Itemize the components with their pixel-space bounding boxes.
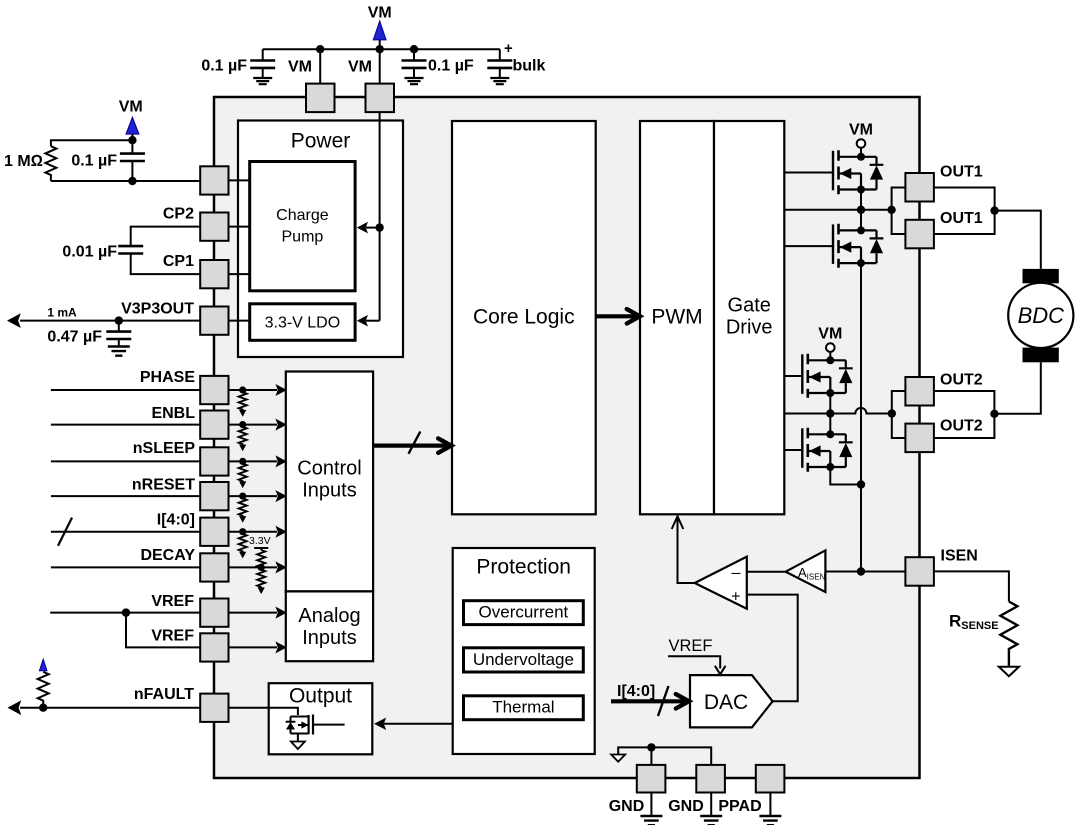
svg-text:OUT1: OUT1	[940, 210, 983, 227]
node VM-RC top	[128, 136, 136, 144]
capacitor C3 bulk	[487, 40, 545, 78]
node V3P3OUT cap	[115, 316, 123, 324]
wire VCP pin to Charge Pump	[229, 179, 250, 181]
pin VCP	[200, 166, 228, 194]
wire ENBL external	[51, 424, 200, 426]
wire nRESET internal with arrow	[229, 490, 287, 502]
node OUT2-pins	[888, 409, 896, 417]
VM terminal OUT1	[857, 139, 866, 148]
pin OUT1a	[905, 173, 934, 202]
node RC bottom	[128, 177, 136, 185]
svg-text:VREF: VREF	[669, 637, 713, 655]
svg-text:V3P3OUT: V3P3OUT	[121, 301, 194, 318]
node rail-VM2	[376, 45, 384, 53]
Undervoltage box	[464, 648, 584, 672]
svg-text:I[4:0]: I[4:0]	[617, 683, 655, 700]
pin OUT2a	[905, 377, 934, 406]
DAC block	[690, 675, 773, 727]
wire ISEN pin to RSENSE	[934, 571, 1009, 601]
ground (GND1)	[640, 816, 662, 825]
wire VM to Q3 drain	[829, 352, 831, 360]
pin ISEN	[905, 557, 934, 586]
node ENBL pulldown tap	[239, 421, 246, 428]
svg-text:CP2: CP2	[163, 206, 194, 223]
svg-text:Core Logic: Core Logic	[473, 306, 575, 329]
PWM box	[640, 121, 714, 514]
3.3-V LDO box	[250, 304, 355, 341]
pin VM1	[306, 84, 335, 113]
bus Core Logic to PWM	[596, 309, 640, 323]
wire ENBL internal with arrow	[229, 419, 287, 431]
ground (C2)	[405, 78, 424, 84]
wire VREF bracket to VREF2	[126, 613, 200, 648]
wire DECAY internal with arrow	[229, 561, 287, 573]
svg-text:OUT1: OUT1	[940, 163, 983, 180]
svg-text:Overcurrent: Overcurrent	[479, 602, 569, 621]
pin CP1	[200, 260, 228, 288]
resistor pulldown PHASE	[239, 392, 247, 417]
wire OUT1 pin bracket	[892, 188, 906, 235]
wire nFAULT output	[8, 700, 201, 715]
wire VREF2 internal with arrow	[229, 641, 287, 653]
wire Q3 source to Q4 drain	[829, 393, 831, 434]
wire Q4 gate	[784, 449, 802, 451]
supply 3.3V tap	[249, 535, 271, 550]
transistor Q4 (OUT2 low side)	[802, 428, 852, 472]
node rail-C2	[410, 45, 418, 53]
svg-text:+: +	[731, 589, 740, 606]
svg-text:VM: VM	[368, 5, 392, 22]
wire GND net	[618, 743, 711, 765]
Power block	[238, 121, 403, 358]
wire VM to Q1 drain	[860, 148, 862, 157]
transistor Q3 (OUT2 high side)	[802, 354, 852, 398]
ground (C6)	[108, 347, 130, 356]
svg-text:PPAD: PPAD	[718, 798, 761, 815]
wire nFAULT pin to output FET	[229, 708, 298, 715]
svg-text:Inputs: Inputs	[302, 627, 356, 649]
wire RC to VCP pin	[132, 180, 200, 182]
wire PHASE external	[51, 389, 200, 391]
power flag 3.3V (nFAULT pullup)	[39, 659, 47, 671]
svg-text:Analog: Analog	[298, 605, 360, 627]
wire Q1 source to Q2 drain	[860, 190, 862, 231]
capacitor C1 0.1 uF	[201, 49, 275, 78]
resistor R1 1 Mohm	[4, 140, 132, 181]
motor BDC	[1008, 269, 1073, 362]
pin CP2	[200, 213, 228, 241]
Core Logic box	[452, 121, 596, 514]
svg-text:Protection: Protection	[476, 556, 571, 579]
wire Q2 source to ISEN line	[860, 263, 862, 571]
svg-text:DAC: DAC	[704, 691, 748, 714]
svg-text:Control: Control	[297, 458, 361, 480]
wire PPAD to earth	[769, 792, 771, 816]
node DECAY tap	[258, 564, 265, 571]
svg-text:VM: VM	[818, 326, 842, 343]
wire nSLEEP external	[51, 460, 200, 462]
svg-text:VM: VM	[288, 59, 312, 76]
pin VREF2	[200, 633, 228, 661]
svg-text:Pump: Pump	[282, 229, 324, 246]
svg-text:0.01 µF: 0.01 µF	[62, 244, 117, 261]
bus Control Inputs to Core Logic	[373, 438, 451, 452]
wire Q1 gate	[784, 172, 833, 174]
wire comparator out to PWM with arrow	[672, 516, 695, 583]
svg-text:bulk: bulk	[513, 58, 546, 75]
Thermal box	[464, 696, 584, 720]
svg-text:Inputs: Inputs	[302, 480, 356, 502]
wire rail to VM pin1	[319, 49, 321, 83]
resistor pulldown DECAY	[257, 570, 265, 595]
bus slash (DAC input)	[658, 686, 669, 716]
svg-text:Gate: Gate	[728, 295, 771, 317]
capacitor C6 0.47 uF	[47, 321, 131, 347]
resistor pulldown ENBL	[239, 427, 247, 452]
node nRESET pulldown tap	[239, 493, 246, 500]
bus slash (control bus)	[409, 432, 421, 454]
ground (C1)	[253, 78, 272, 84]
svg-text:nSLEEP: nSLEEP	[133, 440, 196, 457]
ground (logic, open triangle)	[611, 755, 625, 762]
svg-text:0.1 µF: 0.1 µF	[428, 58, 474, 75]
power flag VM left	[119, 99, 143, 135]
wire VREF to DAC with arrow	[668, 656, 725, 674]
svg-text:Power: Power	[291, 130, 351, 153]
svg-text:I[4:0]: I[4:0]	[157, 512, 195, 529]
pin PHASE	[200, 376, 228, 404]
ground (C3)	[490, 78, 509, 84]
svg-text:VREF: VREF	[151, 628, 194, 645]
svg-text:Undervoltage: Undervoltage	[473, 650, 574, 669]
wire AISEN to comparator minus	[747, 571, 786, 573]
pin OUT2b	[905, 424, 934, 453]
svg-text:GND: GND	[609, 798, 645, 815]
wire V3P3OUT pin to LDO	[229, 320, 250, 322]
pin DECAY	[200, 553, 228, 581]
bus slash I[4:0] external	[58, 518, 72, 546]
node nFAULT pullup	[39, 704, 47, 712]
svg-text:Drive: Drive	[726, 317, 773, 339]
wire DAC out to comparator plus	[747, 595, 798, 702]
svg-text:PWM: PWM	[651, 306, 702, 329]
wire Q2 gate	[784, 245, 833, 247]
svg-text:VM: VM	[849, 122, 873, 139]
pin ENBL	[200, 411, 228, 439]
svg-text:0.1 µF: 0.1 µF	[71, 153, 117, 170]
pin GND2	[696, 765, 725, 793]
power flag VM top	[368, 5, 392, 50]
svg-text:OUT2: OUT2	[940, 371, 983, 388]
svg-text:0.1 µF: 0.1 µF	[201, 58, 247, 75]
wire I[4:0] internal with arrow	[229, 526, 287, 538]
svg-text:VM: VM	[348, 59, 372, 76]
pin VREF1	[200, 599, 228, 627]
wire VREF1 internal with arrow	[229, 607, 287, 619]
wire VM pin2 internal feed	[357, 112, 384, 327]
wire Protection to Output with arrow	[374, 718, 453, 730]
pin V3P3OUT	[200, 307, 228, 335]
wire DECAY external	[51, 566, 200, 568]
node nSLEEP pulldown tap	[239, 458, 246, 465]
IC body outline	[214, 97, 920, 778]
resistor pullup nFAULT	[38, 672, 49, 708]
svg-text:nRESET: nRESET	[132, 476, 195, 493]
wire nRESET external	[51, 495, 200, 497]
wire OUT1 pins to motor	[934, 188, 1041, 269]
node PHASE pulldown tap	[239, 386, 246, 393]
node ISEN chain	[857, 480, 865, 488]
node OUT1-pins	[887, 206, 895, 214]
svg-text:VM: VM	[119, 99, 143, 116]
resistor pullup DECAY	[257, 550, 265, 568]
Analog Inputs box	[286, 591, 373, 661]
wire CP2 pin to Charge Pump	[229, 226, 250, 228]
pin nFAULT	[200, 694, 228, 722]
svg-text:ISEN: ISEN	[941, 548, 978, 565]
node ISEN tap	[857, 567, 865, 575]
pin OUT1b	[905, 220, 934, 249]
svg-text:nFAULT: nFAULT	[134, 686, 194, 703]
transistor Q5 (open-drain output)	[286, 715, 345, 750]
resistor pulldown nSLEEP	[239, 464, 247, 489]
wire CP1 pin to Charge Pump	[229, 273, 250, 275]
svg-text:PHASE: PHASE	[140, 369, 195, 386]
Output box	[269, 683, 373, 754]
svg-text:1 mA: 1 mA	[47, 306, 77, 320]
wire OUT1 node	[784, 209, 891, 211]
svg-text:Output: Output	[289, 685, 352, 708]
wire top VM rail	[263, 48, 500, 50]
ground (PPAD)	[759, 816, 781, 825]
pin I40	[200, 518, 228, 546]
node OUT2-FET	[826, 409, 834, 417]
resistor RSENSE	[949, 602, 1017, 667]
svg-text:VREF: VREF	[151, 593, 194, 610]
wire ISEN internal tap	[825, 571, 905, 573]
comparator U1	[695, 557, 747, 609]
svg-text:Thermal: Thermal	[492, 698, 554, 717]
node OUT1-FET	[857, 206, 865, 214]
wire OUT2 node with hop	[784, 408, 892, 414]
svg-text:3.3V: 3.3V	[249, 535, 271, 547]
pin nRESET	[200, 482, 228, 510]
capacitor C4 0.1 uF	[71, 140, 145, 181]
wire V3P3OUT output	[7, 306, 200, 329]
amp AISEN	[786, 550, 826, 592]
wire nSLEEP internal with arrow	[229, 455, 287, 467]
Control Inputs box	[286, 372, 373, 592]
svg-text:DECAY: DECAY	[140, 547, 195, 564]
wire PHASE internal with arrow	[229, 384, 287, 396]
svg-text:3.3-V LDO: 3.3-V LDO	[265, 315, 341, 332]
wire I[4:0] external	[51, 531, 200, 533]
pin GND1	[637, 765, 666, 793]
wire GND1 to earth	[650, 792, 652, 816]
resistor pulldown nRESET	[239, 498, 247, 523]
bus I[4:0] to DAC	[611, 694, 689, 708]
Protection box	[453, 548, 595, 754]
pin PPAD	[756, 765, 785, 793]
svg-text:BDC: BDC	[1018, 303, 1065, 328]
node VREF bracket	[122, 608, 130, 616]
svg-text:Charge: Charge	[276, 207, 329, 224]
svg-text:1 MΩ: 1 MΩ	[4, 153, 43, 170]
svg-text:+: +	[504, 40, 513, 57]
wire VM flag to node	[131, 134, 133, 140]
Overcurrent box	[464, 601, 584, 625]
VM terminal OUT2	[826, 343, 835, 352]
transistor Q2 (OUT1 low side)	[833, 224, 883, 268]
svg-text:GND: GND	[668, 798, 704, 815]
transistor Q1 (OUT1 high side)	[833, 150, 883, 194]
Gate Drive box	[714, 121, 784, 514]
wire rail to VM pin2	[379, 49, 381, 84]
ground (RSENSE, open triangle)	[999, 667, 1019, 676]
capacitor C2 0.1 uF	[402, 49, 474, 78]
capacitor C5 0.01 uF	[62, 227, 200, 275]
node I[4:0] pulldown tap	[239, 528, 246, 535]
ground (GND2)	[700, 816, 722, 825]
svg-text:OUT2: OUT2	[940, 417, 983, 434]
resistor pulldown I[4:0]	[239, 534, 247, 559]
wire Q4 source to ISEN line	[830, 467, 861, 485]
wire GND2 to earth	[710, 792, 712, 816]
wire VREF1 external	[50, 612, 200, 614]
Charge Pump box	[250, 162, 355, 291]
wire OUT2 pin bracket	[892, 391, 906, 438]
node rail-VM1	[316, 45, 324, 53]
pin VM2	[366, 84, 395, 113]
pin nSLEEP	[200, 447, 228, 475]
wire Q3 gate	[784, 375, 802, 377]
wire OUT2 pins to motor	[934, 362, 1041, 438]
svg-text:–: –	[732, 565, 741, 582]
svg-text:0.47 µF: 0.47 µF	[47, 329, 102, 346]
svg-text:ENBL: ENBL	[151, 405, 195, 422]
svg-text:CP1: CP1	[163, 253, 194, 270]
